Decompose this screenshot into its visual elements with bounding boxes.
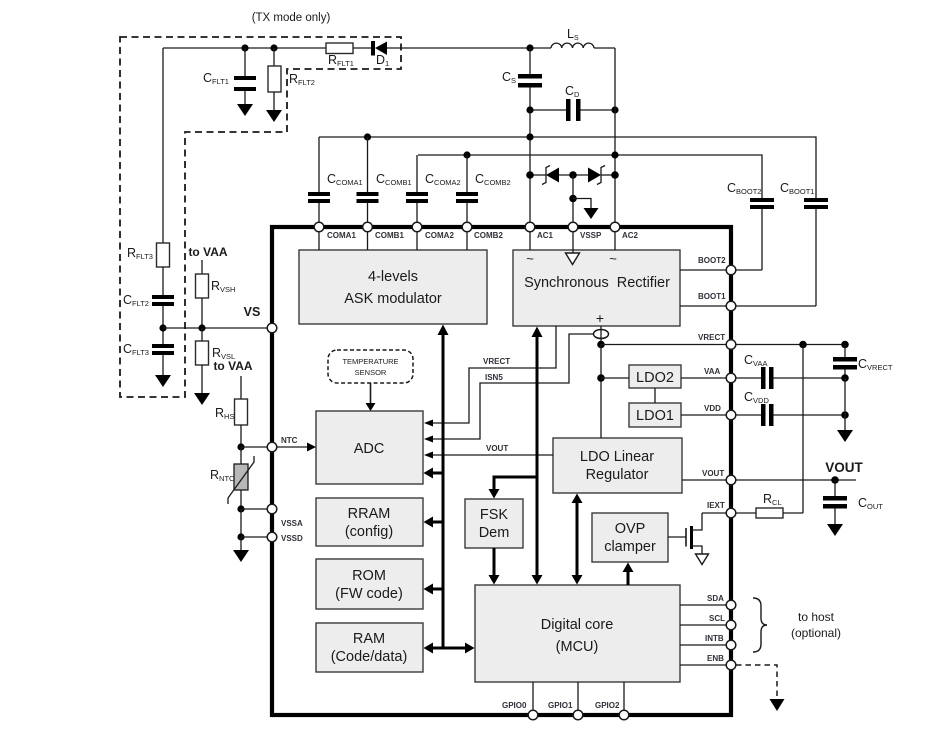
junction on top wire at RFLT2 (270, 44, 277, 51)
wire VDD inside (681, 414, 726, 416)
wire VOUT outside (736, 479, 856, 481)
svg-text:clamper: clamper (604, 539, 656, 555)
junction VRECT at CVRECT (841, 341, 849, 349)
bus LDO regulator to digital core double arrow (572, 494, 583, 585)
bus rectifier to digital core column (532, 327, 543, 585)
capacitor CCOMB1 (357, 137, 412, 222)
wire tap to LDO2 (601, 377, 629, 379)
svg-text:VAA: VAA (704, 367, 721, 376)
bus FSK Dem to digital core (489, 548, 500, 585)
inductor LS (530, 27, 615, 48)
svg-text:SENSOR: SENSOR (355, 368, 387, 377)
pin circle VSSD (267, 532, 303, 543)
pin circle VDD (704, 404, 736, 420)
junction zener row AC1 (526, 171, 534, 179)
wire GPIO0 stub (532, 682, 534, 711)
block OVP clamper (592, 513, 668, 562)
junction NTC (237, 443, 244, 450)
svg-text:Dem: Dem (479, 525, 510, 541)
svg-text:NTC: NTC (281, 436, 298, 445)
resistor RCL (736, 492, 803, 518)
junction y155 at COMB2 (463, 151, 470, 158)
wire VRECT sense line (424, 326, 556, 427)
wire temp sensor to ADC (366, 383, 376, 411)
svg-text:ASK modulator: ASK modulator (344, 291, 442, 307)
svg-text:(config): (config) (345, 524, 393, 540)
zener diode clamp left (530, 166, 588, 185)
svg-text:ENB: ENB (707, 654, 724, 663)
IC outline (272, 227, 731, 715)
pin circle BOOT2 (698, 256, 736, 275)
wire VSSA-VSSD (240, 509, 242, 537)
svg-text:INTB: INTB (705, 634, 724, 643)
pin circle GPIO0 (502, 701, 538, 720)
block FSK Dem (465, 499, 523, 548)
junction VAA rail (841, 374, 849, 382)
wire AC1 column (529, 110, 531, 222)
svg-text:(optional): (optional) (791, 626, 841, 640)
wire AC2 column (614, 48, 616, 222)
block RAM (316, 623, 423, 672)
label to VAA lower (213, 359, 252, 373)
capacitor CVDD (736, 390, 845, 426)
plus output mark (596, 310, 604, 326)
block 4-levels ASK modulator (299, 250, 487, 324)
pin circle ENB (707, 654, 736, 670)
svg-text:OVP: OVP (615, 521, 646, 537)
svg-text:Synchronous Rectifier: Synchronous Rectifier (524, 275, 670, 291)
svg-text:IEXT: IEXT (707, 501, 725, 510)
capacitor CFLT1 (203, 48, 256, 104)
junction VSSP branch (569, 195, 577, 203)
capacitor CCOMB2 (456, 155, 511, 222)
svg-text:~: ~ (526, 251, 534, 266)
svg-text:VRECT: VRECT (698, 333, 725, 342)
svg-text:(TX mode only): (TX mode only) (252, 12, 331, 24)
dashed ENB wire (736, 665, 785, 711)
pin circle COMB2 (462, 222, 503, 240)
bus RAM to digital core double arrow (424, 643, 475, 654)
wire SCL inside (680, 624, 726, 626)
svg-text:RAM: RAM (353, 631, 385, 647)
svg-text:COMB1: COMB1 (375, 231, 404, 240)
wire BOOT1 inside (680, 305, 726, 307)
pin circle GPIO1 (548, 701, 583, 720)
capacitor CD (530, 84, 615, 121)
block RRAM (316, 498, 423, 546)
svg-text:LDO Linear: LDO Linear (580, 449, 654, 465)
block ADC (316, 411, 423, 484)
svg-text:~: ~ (609, 251, 617, 266)
svg-text:VSSA: VSSA (281, 519, 303, 528)
pin circle NTC (267, 442, 277, 452)
svg-text:LDO2: LDO2 (636, 370, 674, 386)
junction y137 at AC1 (526, 133, 533, 140)
svg-text:AC2: AC2 (622, 231, 639, 240)
junction VS at CFLT branch (159, 324, 166, 331)
junction top wire at Cs column (526, 44, 533, 51)
wire VRECT outside (736, 344, 845, 346)
pin circle VOUT (702, 469, 736, 485)
wire NTC arrow into ADC (277, 436, 316, 452)
wire IEXT inside (702, 512, 726, 514)
resistor RHS (215, 376, 248, 447)
wire SDA inside (680, 604, 726, 606)
svg-text:GPIO0: GPIO0 (502, 701, 527, 710)
label VS (244, 305, 261, 319)
junction CD right (611, 106, 618, 113)
svg-text:VSSP: VSSP (580, 231, 602, 240)
wire INTB inside (680, 644, 726, 646)
wire VSSP column (572, 175, 574, 222)
bus digital core to OVP clamper (623, 563, 634, 586)
svg-text:to host: to host (798, 610, 835, 624)
svg-text:(Code/data): (Code/data) (331, 649, 408, 665)
block LDO Linear Regulator (553, 438, 682, 493)
resistor RFLT2 (268, 48, 315, 110)
pin stub COMA1 (318, 227, 320, 250)
ground arrow decoupling rail (837, 430, 853, 442)
junction LDO2 tap (597, 374, 605, 382)
pin circle SCL (709, 614, 736, 630)
svg-text:VOUT: VOUT (486, 444, 508, 453)
block Digital core MCU (475, 585, 680, 682)
svg-text:VS: VS (244, 305, 261, 319)
label to VAA upper (188, 245, 227, 259)
label (TX mode only) (252, 12, 331, 24)
svg-text:VDD: VDD (704, 404, 721, 413)
block TEMPERATURE SENSOR (328, 350, 413, 383)
capacitor CCOMA2 (406, 155, 461, 222)
bus arrow into ADC (424, 468, 444, 479)
ground arrow at VSSP branch (573, 199, 599, 220)
ground arrow under CFLT3 (155, 375, 171, 387)
svg-text:VOUT: VOUT (825, 460, 863, 475)
svg-text:COMA1: COMA1 (327, 231, 356, 240)
svg-text:(FW code): (FW code) (335, 586, 403, 602)
pin stub COMB1 (367, 227, 369, 250)
bus ASK modulator column (438, 325, 449, 649)
svg-text:FSK: FSK (480, 507, 509, 523)
capacitor COUT (823, 480, 883, 524)
capacitor CCOMA1 (308, 137, 363, 222)
wire VRECT down to LDO linear regulator (600, 345, 602, 439)
ground arrow under COUT (827, 524, 843, 536)
pin circle VSSP (568, 222, 602, 240)
svg-text:SDA: SDA (707, 594, 724, 603)
svg-text:COMA2: COMA2 (425, 231, 454, 240)
bus arrow into RRAM (424, 517, 444, 528)
wire VSSD to pin (241, 536, 267, 538)
resistor RVSH (196, 260, 236, 328)
junction VS at RVS divider (198, 324, 205, 331)
capacitor CBOOT2 (727, 181, 774, 270)
block LDO2 (629, 365, 681, 388)
svg-text:(MCU): (MCU) (556, 639, 599, 655)
pin stub VSSP (572, 227, 574, 253)
pin circle COMA2 (412, 222, 454, 240)
pin circle SDA (707, 594, 736, 610)
brace to host (753, 598, 767, 652)
svg-text:ROM: ROM (352, 568, 386, 584)
wire VSSA to pin (241, 508, 267, 510)
ground arrow below VSSD (233, 537, 249, 562)
junction CD left (526, 106, 533, 113)
pin circle VRECT (698, 333, 736, 349)
svg-text:to VAA: to VAA (188, 245, 227, 259)
junction zener row center (569, 171, 577, 179)
svg-text:BOOT1: BOOT1 (698, 292, 726, 301)
label to host optional (791, 610, 841, 640)
wire BOOT2 inside (680, 269, 726, 271)
wire VOUT inside (682, 479, 726, 481)
mosfet clamp transistor (668, 513, 702, 554)
pin stub COMB2 (466, 227, 468, 250)
pin circle COMA1 (314, 222, 356, 240)
svg-text:RRAM: RRAM (348, 506, 391, 522)
ac symbol at AC2 (609, 251, 617, 266)
junction y155 at AC2 (611, 151, 618, 158)
bus branch to FSK Dem (489, 477, 538, 499)
wire ENB inside (680, 664, 726, 666)
svg-text:4-levels: 4-levels (368, 269, 418, 285)
junction zener row AC2 (611, 171, 619, 179)
pin circle BOOT1 (698, 292, 736, 311)
block Synchronous Rectifier (513, 250, 680, 326)
ground arrow under CFLT1 (237, 104, 253, 116)
capacitor CBOOT1 (736, 181, 828, 306)
pin stub AC2 (614, 227, 616, 250)
pin circle INTB (705, 634, 736, 650)
wire decoupling rail (844, 378, 846, 430)
svg-text:Regulator: Regulator (586, 467, 649, 483)
wire ISNS sense line (424, 334, 594, 443)
junction on top wire at CFLT1 (241, 44, 248, 51)
junction VDD rail (841, 411, 849, 419)
svg-text:VRECT: VRECT (483, 357, 510, 366)
svg-text:BOOT2: BOOT2 (698, 256, 726, 265)
label VOUT bold (825, 460, 863, 475)
wire VOUT sense line (424, 444, 553, 459)
wire RCL to VRECT rail (802, 345, 804, 514)
vssp entry triangle (566, 253, 580, 265)
dashed TX-mode region outline (120, 37, 401, 397)
svg-text:GPIO2: GPIO2 (595, 701, 620, 710)
svg-text:LDO1: LDO1 (636, 408, 674, 424)
pin circle AC2 (610, 222, 638, 240)
current sense ellipse (594, 326, 609, 344)
svg-text:AC1: AC1 (537, 231, 554, 240)
wire VS net (163, 327, 267, 329)
wire net COMA1/AC1/BOOT1 at y=137 (319, 137, 816, 198)
ground arrow under RFLT2 (266, 110, 282, 122)
zener diode clamp right (588, 166, 615, 185)
thermistor RNTC (210, 447, 254, 509)
resistor RFLT3 (127, 243, 170, 295)
pin circle COMB1 (363, 222, 405, 240)
junction VOUT at COUT (831, 476, 839, 484)
wire RFLT3 branch vertical (162, 48, 164, 243)
resistor RFLT1 (326, 43, 354, 68)
arrow to VAA under RVSL (194, 393, 210, 405)
svg-text:VSSD: VSSD (281, 534, 303, 543)
open ground triangle at mosfet source (696, 554, 709, 565)
capacitor CFLT2 (123, 293, 174, 344)
svg-text:ADC: ADC (354, 441, 385, 457)
pin circle AC1 (525, 222, 553, 240)
junction VRECT node (597, 341, 605, 349)
pin stub COMA2 (416, 227, 418, 250)
capacitor CFLT3 (123, 342, 174, 375)
junction VRECT at RCL column (799, 341, 807, 349)
wire NTC to pin (241, 446, 267, 448)
capacitor CS (502, 48, 542, 110)
wire net COMA2/AC2/BOOT2 at y=155 (418, 155, 762, 198)
resistor RVSL (196, 328, 236, 393)
svg-text:Digital core: Digital core (541, 617, 614, 633)
wire top net from RFLT3 branch to Cs node (163, 47, 530, 49)
junction VSSD (237, 533, 244, 540)
svg-text:to VAA: to VAA (213, 359, 252, 373)
wire GPIO1 stub (577, 682, 579, 711)
svg-text:+: + (596, 310, 604, 326)
svg-text:ISN5: ISN5 (485, 373, 503, 382)
junction VSSA (237, 505, 244, 512)
ac symbol at AC1 (526, 251, 534, 266)
pin stub AC1 (529, 227, 531, 250)
pin circle VSSA (267, 504, 303, 528)
pin circle VS (267, 323, 277, 333)
block ROM (316, 559, 423, 609)
block LDO1 (629, 403, 681, 427)
svg-text:COMB2: COMB2 (474, 231, 503, 240)
capacitor CVRECT (833, 345, 893, 379)
pin circle VAA (704, 367, 736, 383)
wire VRECT node to pin (601, 344, 726, 346)
svg-text:VOUT: VOUT (702, 469, 724, 478)
junction y137 at COMB1 (364, 133, 371, 140)
wire LDO2-LDO1 (654, 388, 656, 403)
wire VAA inside (681, 377, 726, 379)
bus arrow into ROM (424, 584, 444, 595)
svg-text:GPIO1: GPIO1 (548, 701, 573, 710)
pin circle GPIO2 (595, 701, 629, 720)
wire GPIO2 stub (623, 682, 625, 711)
diode D1 (371, 41, 389, 68)
svg-text:TEMPERATURE: TEMPERATURE (342, 357, 398, 366)
pin circle IEXT (707, 501, 736, 518)
capacitor CVAA (736, 353, 845, 389)
svg-text:SCL: SCL (709, 614, 725, 623)
